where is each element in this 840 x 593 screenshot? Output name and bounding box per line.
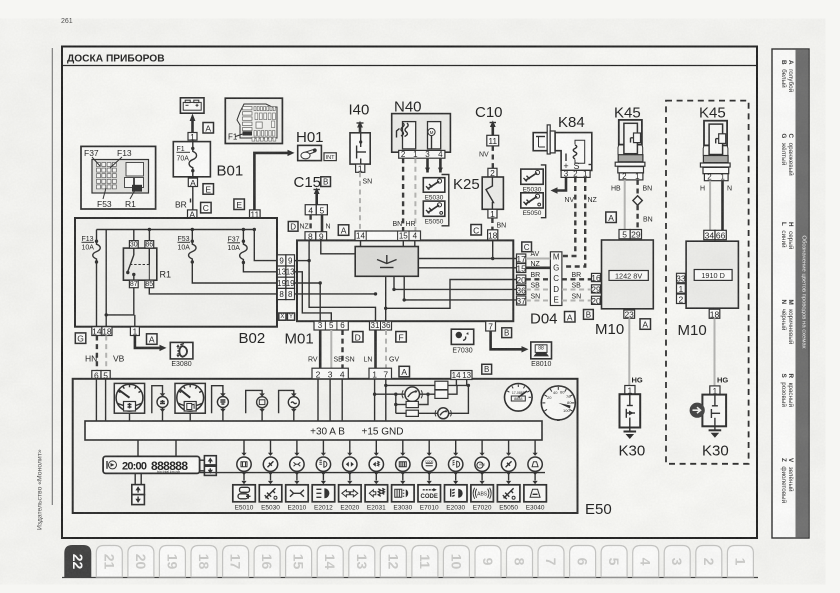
E50 pins 2 3 4 — [312, 368, 348, 379]
wire E50-3 to bar — [329, 379, 331, 421]
svg-text:5: 5 — [606, 558, 622, 566]
svg-text:17: 17 — [228, 554, 244, 570]
telltale supply rail — [200, 471, 545, 474]
battery G01 — [180, 98, 204, 113]
wire BN N40-2 to M01-15 — [402, 158, 404, 231]
wire HG M10r to K30r — [714, 318, 716, 386]
wire BR M01-20 through D04-C to M10-16 — [526, 278, 551, 280]
wire SN M01-6 to E50-4 — [341, 330, 343, 368]
arrow from M01 pin 7 to E8010 — [491, 331, 529, 353]
wire from pin 11 up and to H01 — [254, 150, 294, 218]
M01 internal wire gauge to pin 17 — [418, 258, 516, 260]
wire F53 to M01 row 19 — [192, 262, 277, 283]
R1 pin 30 — [129, 241, 138, 249]
earth point E5030 (pair 1) — [423, 178, 445, 202]
svg-text:11: 11 — [417, 554, 433, 569]
wire E50-1 to bar with lamp/resistor network — [373, 379, 376, 421]
wire colour legend strip — [772, 49, 809, 538]
connector tags X Y — [279, 313, 286, 320]
M01 internal stubs pins 14 15 4 to gauge unit — [361, 241, 415, 247]
telltale connector for E2012 — [316, 440, 330, 484]
M01 left pins 9 13 19 8 (double column) — [277, 255, 286, 266]
wire LN M01-31 to E50-1 — [374, 330, 377, 368]
wire bus to pin 18 (VB) — [105, 230, 108, 327]
speedometer gauge — [541, 386, 575, 421]
telltale connector for E2030 — [449, 440, 463, 484]
wire H K45r to M10r pin34 — [709, 181, 711, 231]
telltale connector for E2031 — [369, 440, 383, 484]
M01 internal wire gauge to pin 15 — [418, 267, 516, 269]
C15 feed symbol — [314, 188, 320, 205]
earth point E8010 — [531, 342, 552, 368]
ref label E — [234, 199, 245, 210]
instrument cluster M01 — [297, 240, 513, 321]
wire BN K25 to M01-18 — [491, 218, 493, 230]
display buttons below — [132, 473, 145, 504]
wire RV M01-3 to E50-2 — [319, 330, 322, 368]
pin A on B02 — [188, 209, 197, 219]
wire NV K84-2 to D04-M — [562, 177, 575, 256]
wire E50-5 to bar — [105, 379, 107, 421]
svg-text:21: 21 — [101, 554, 117, 570]
dashed optional-equipment enclosure — [666, 101, 749, 464]
svg-text:6: 6 — [575, 558, 591, 566]
ground symbol K30 left — [624, 428, 637, 440]
oil pressure sender — [246, 390, 268, 421]
E50 pins 1 7 — [369, 368, 392, 379]
wire battery to B01 pin 1 — [190, 114, 196, 134]
svg-text:16: 16 — [259, 554, 275, 570]
ref label E — [203, 184, 214, 195]
wire pin11 riser to M01 row 9 — [254, 230, 277, 261]
main frame — [62, 47, 757, 539]
svg-text:9: 9 — [480, 558, 496, 566]
temperature sender — [152, 386, 168, 421]
R1 pin 87 — [129, 280, 138, 288]
wire HR N40-1 to M01-4 — [414, 158, 416, 231]
svg-text:22: 22 — [70, 554, 86, 570]
relay R1 — [123, 248, 156, 280]
M01 internal wire pin 18 drop — [491, 240, 494, 260]
arrow from N40-4 to E5050 — [439, 158, 442, 172]
bottom page-index tab strip — [62, 546, 758, 578]
svg-text:10: 10 — [448, 554, 464, 570]
fuse B01 (F1 70A) — [173, 140, 210, 178]
earth point E2031 — [365, 485, 388, 512]
fuse F53 10A — [178, 230, 197, 264]
I40 pin 1 — [356, 164, 365, 174]
earth point E2012 — [312, 485, 335, 512]
pin A of B01 — [188, 178, 197, 188]
wire BN K45 to M10 pin29 with connector diamond — [636, 180, 638, 196]
telltale connector for E2010 — [290, 440, 304, 484]
wire SN M01-37 through D04-E to M10-20 — [526, 300, 551, 302]
wire E50-6 to bar — [95, 379, 97, 421]
earth point E7010 — [418, 485, 441, 512]
fuel level sender — [212, 386, 229, 421]
M01 internal wire row 8 — [295, 292, 378, 295]
M01 gauge unit symbol — [355, 247, 418, 277]
bracket for E5030/E5050 pair 1 — [442, 175, 449, 226]
wire NZ C15-4 to M01-8 — [309, 215, 311, 232]
wire E50-13 to resistor network — [467, 380, 469, 386]
B02 internal bus wire — [97, 228, 257, 231]
svg-text:14: 14 — [322, 554, 338, 570]
fuse/relay box B02 — [75, 218, 277, 327]
pin 1 of B01 — [188, 132, 197, 142]
wire SN I40 to M01-14 — [359, 172, 361, 231]
resistor Rd — [396, 410, 438, 416]
lamp module K30 (right) — [710, 386, 720, 396]
wire HN B02-14 to E50-6 — [96, 336, 98, 371]
instrument panel unit E50 — [73, 379, 578, 513]
earth point E5010 — [233, 485, 256, 512]
wire N K45r to M10r pin66 — [721, 181, 724, 231]
earth point E7030 — [451, 329, 473, 354]
wire GV M01-36 to E50-7 — [385, 330, 387, 368]
svg-text:2: 2 — [701, 558, 717, 566]
R1 pin 86 — [145, 241, 154, 249]
telltale connector for E3040 — [528, 440, 542, 484]
earth point E3040 — [524, 485, 547, 512]
E50 pins 6 5 — [92, 370, 101, 380]
svg-text:20: 20 — [133, 554, 149, 570]
telltale connector for E5010 — [237, 440, 251, 484]
M01 internal wire row 9 — [295, 259, 311, 262]
svg-text:261: 261 — [61, 18, 73, 25]
wire BR from B01 to B02 — [191, 187, 193, 211]
M01 internal wire gauge to pin 37 (right) — [403, 276, 517, 301]
telltale connector for E5030 — [263, 440, 277, 484]
wire E50-7 to bar — [384, 379, 387, 421]
wire N C15-5 to M01-9 — [321, 215, 324, 232]
earth point E5050 — [497, 485, 520, 512]
warning lamp L2 — [435, 385, 468, 418]
svg-text:12: 12 — [385, 554, 401, 570]
wire HB K45 to M10 pin5 — [624, 180, 626, 230]
wire fuel gauge to bar — [189, 413, 191, 421]
wire F37 to M01 row 13 — [243, 263, 277, 272]
instrument module M10 (left) — [619, 230, 630, 240]
svg-text:4: 4 — [638, 558, 654, 566]
wire NZ M01-15 to D04-G — [526, 266, 551, 269]
connector block D04 (M G C D E) — [550, 252, 562, 306]
wire R1-85 to M01 row 8 — [149, 288, 277, 294]
B02 pin 1 — [130, 327, 139, 337]
supply bus bar +30/+15 — [85, 421, 542, 440]
earth point E3080 — [170, 342, 193, 368]
M01 bottom pins 3 5 6 — [314, 321, 348, 330]
earth point E2030 — [445, 485, 468, 512]
telltale connector for E2020 — [343, 440, 357, 484]
svg-text:Издательство «Монолит»: Издательство «Монолит» — [37, 449, 44, 530]
svg-text:8: 8 — [512, 558, 528, 566]
instrument module M10 (right) — [704, 230, 715, 240]
bracket for E5030/E5050 pair 2 — [541, 165, 546, 218]
earth point E2010 — [286, 485, 309, 512]
wire NZ K84-1 to D04-G — [562, 177, 585, 266]
K25 pin 1 — [488, 209, 497, 219]
svg-text:ДОСКА ПРИБОРОВ: ДОСКА ПРИБОРОВ — [67, 54, 165, 65]
M01 pin 7 — [486, 321, 496, 331]
display buttons up/down (right) — [204, 456, 216, 465]
svg-text:15: 15 — [291, 554, 307, 570]
odometer/clock gauge — [505, 384, 533, 412]
telltale connector for E7020 — [475, 440, 489, 484]
M01 internal wire: top pin 8 to bottom pin 31 — [309, 240, 375, 321]
svg-text:Gжёлтый: Gжёлтый — [780, 134, 788, 166]
ref label A — [203, 123, 214, 134]
M01 bottom pins 31 36 — [370, 321, 392, 330]
C10 pin 11 — [487, 135, 499, 146]
M01 internal wire gauge to pin 36 and pin 20 row — [384, 276, 517, 321]
ground symbol K30 right — [709, 426, 722, 438]
fuse location illustration (left, F37/F13/F53/R1) — [81, 146, 156, 209]
wire NV C10 to K25 — [492, 146, 494, 168]
M01 internal wire row 13 to pin 5 — [295, 272, 332, 321]
M01 pin 18 — [488, 230, 498, 241]
telltale connector for E5050 — [501, 440, 515, 484]
diode module K30 (left) — [625, 385, 635, 395]
earth point E5030 (pair 2) — [521, 169, 543, 193]
telltale connector for E3030 — [396, 440, 410, 484]
svg-text:19: 19 — [164, 554, 180, 570]
wire K84-3 to earth arrow — [551, 177, 567, 193]
wire temp gauge to bar — [129, 413, 131, 421]
svg-text:1: 1 — [732, 558, 748, 566]
wires bar to display — [137, 440, 139, 456]
svg-text:18: 18 — [196, 554, 212, 570]
trip computer display — [103, 456, 204, 474]
left margin rule — [51, 48, 53, 505]
fuel gauge — [175, 383, 205, 413]
earth point E5050 (pair 1) — [423, 201, 445, 225]
wire SB M01-5 to E50-3 — [330, 330, 332, 368]
K25 pin 2 — [488, 168, 497, 178]
earth point E2020 — [339, 485, 362, 512]
wire SB M01-36 through D04-D to M10-29 — [526, 289, 551, 291]
C15 pins 4 5 — [305, 205, 316, 216]
arrow from B02 pin 1 to E3080 — [135, 336, 167, 352]
R1 pin 85 — [145, 280, 154, 288]
earth point E7020 — [471, 485, 494, 512]
resistor Rc — [394, 394, 428, 413]
earth point E3030 — [392, 485, 415, 512]
E50 pins 14 13 — [451, 371, 472, 381]
M01 right pins 17 15 20 36 37 — [516, 254, 526, 264]
M01 internal wire row 19 to pin 3 — [295, 281, 322, 321]
svg-text:7: 7 — [543, 558, 559, 566]
svg-text:Bбелый: Bбелый — [780, 60, 788, 88]
arrow from N40-3 to E5030 — [426, 158, 429, 172]
wire R1-87 to pin-18 riser and B02 pin 1 — [106, 288, 135, 327]
wire VB B02-18 to E50-5 — [105, 336, 107, 371]
earth point E5030 — [259, 485, 282, 512]
fuse F37 10A — [228, 230, 248, 265]
svg-text:3: 3 — [669, 558, 685, 566]
wire F13 to pin 14 (HN) — [96, 262, 98, 327]
svg-text:Обозначение цветов проводов на: Обозначение цветов проводов на схемах — [800, 235, 806, 348]
coolant temperature gauge — [114, 383, 144, 413]
resistor Rb — [428, 385, 457, 398]
resistor Ra — [386, 381, 470, 389]
M01 pins 8 9 — [305, 232, 316, 242]
fusebox location illustration (top) — [225, 98, 282, 143]
svg-text:13: 13 — [354, 554, 370, 570]
wire E50-2 to bar — [317, 379, 319, 421]
wire E50-14 to resistor network — [455, 380, 457, 386]
telltale connector for E7010 — [422, 440, 436, 484]
earth point E5050 (pair 2) — [521, 193, 543, 217]
svg-text:Hсерый: Hсерый — [787, 222, 795, 250]
M01 pins 14 15 4 (top strip) — [355, 231, 421, 241]
wire bus to R1-86 — [148, 230, 150, 241]
wire E50-4 to bar — [341, 379, 343, 421]
pin 11 on B02 — [250, 209, 261, 219]
INT tag — [324, 153, 336, 161]
wire bus to R1-30 — [133, 230, 135, 241]
B02 pins 14 18 — [92, 327, 102, 337]
warning lamp L1 — [375, 387, 430, 402]
M01 internal wire: top pin 9 to gauge unit — [321, 240, 355, 253]
brake fluid sender — [279, 390, 300, 421]
fuse F13 10A — [82, 230, 101, 264]
wire AV M01-17 to D04-M — [526, 258, 551, 260]
ref label C — [201, 202, 212, 213]
wire HG M10 to K30 — [628, 318, 630, 385]
M01 internal wire gauge to pin 36 (right) — [392, 276, 516, 291]
